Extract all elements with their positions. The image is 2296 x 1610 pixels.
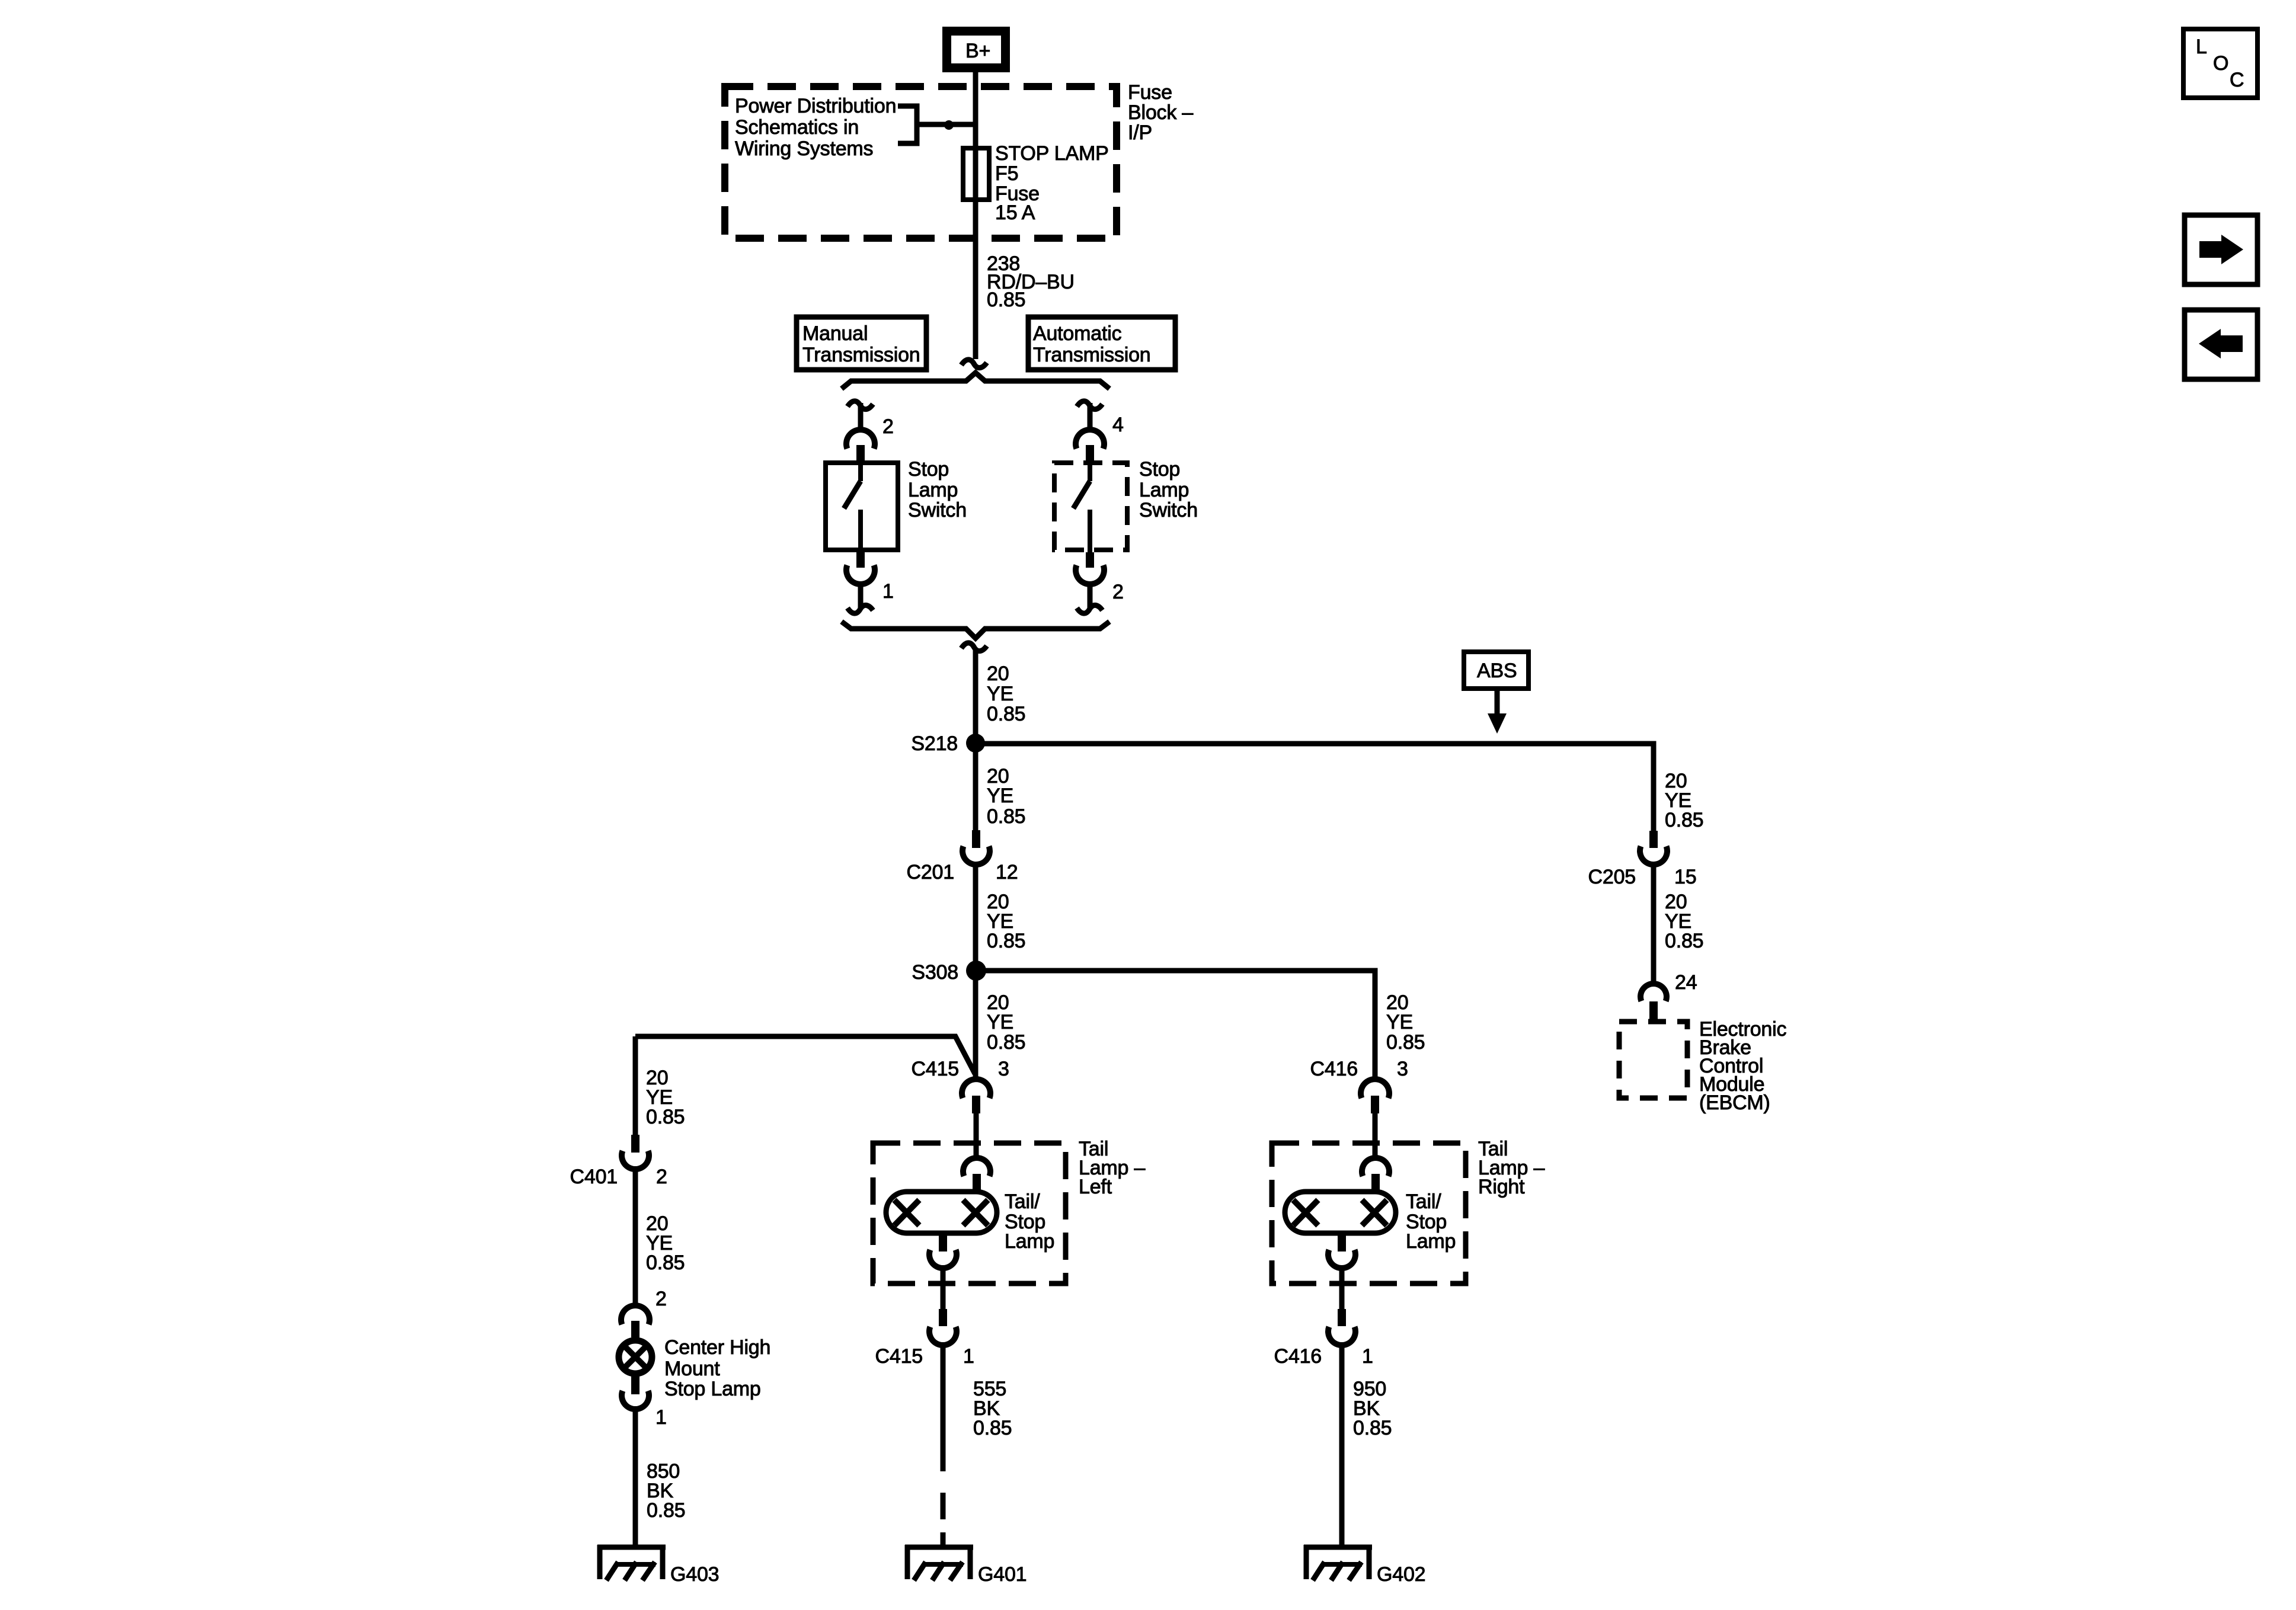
connector arc auto switch top (1076, 430, 1104, 449)
wire chmsl branch down (633, 1036, 638, 1135)
label Center High Mount Stop Lamp (664, 1336, 770, 1400)
label wire 850 BK 0.85 (647, 1460, 685, 1522)
svg-text:15 A: 15 A (995, 201, 1035, 224)
label wire 950 BK 0.85 (1353, 1378, 1392, 1439)
label wire 20 YE 0.85 to EBCM (1665, 891, 1703, 952)
connector arc C415 pin3 (962, 1079, 990, 1098)
wire S218 to EBCM branch corner (976, 744, 1654, 831)
connector cup C201 (962, 846, 990, 865)
wire tail lamp left down (941, 1267, 946, 1310)
label Fuse Block - I/P (1128, 81, 1193, 144)
pin bar auto switch bottom (1086, 552, 1094, 568)
svg-text:0.85: 0.85 (1386, 1031, 1425, 1054)
wire C415 to tail lamp left (974, 1113, 979, 1160)
svg-text:1: 1 (655, 1406, 667, 1429)
svg-text:G402: G402 (1377, 1563, 1425, 1586)
wire C205 to EBCM (1651, 864, 1657, 984)
svg-text:3: 3 (1397, 1058, 1408, 1080)
pin bar manual switch bottom (856, 552, 865, 568)
fuse F5 symbol (963, 148, 989, 200)
svg-text:ABS: ABS (1477, 660, 1517, 682)
svg-text:0.85: 0.85 (1665, 930, 1703, 952)
pin bar C416 pin3 (1371, 1096, 1379, 1113)
svg-text:2: 2 (1112, 581, 1124, 603)
svg-text:0.85: 0.85 (1665, 809, 1703, 831)
connector cup C401 (622, 1151, 649, 1169)
label Stop Lamp Switch manual (908, 458, 967, 521)
wire curl left branch top (848, 401, 873, 409)
ABS box (1464, 652, 1528, 689)
filament X right right-lamp (1362, 1200, 1387, 1225)
svg-text:0.85: 0.85 (987, 1031, 1025, 1054)
svg-text:0.85: 0.85 (646, 1106, 685, 1128)
svg-text:C415: C415 (912, 1058, 959, 1080)
label wire 20 YE 0.85 below S218 (987, 765, 1025, 828)
svg-text:Lamp: Lamp (1406, 1230, 1456, 1253)
bulb tail/stop lamp right (1285, 1192, 1396, 1233)
switch blade manual (844, 460, 861, 552)
pin bar auto switch top (1086, 445, 1094, 460)
svg-text:Manual: Manual (802, 322, 868, 345)
pin bar manual switch top (856, 445, 865, 460)
wire curl right branch top (1077, 401, 1102, 409)
svg-text:15: 15 (1674, 866, 1696, 888)
svg-text:C401: C401 (570, 1166, 618, 1188)
switch blade auto (1073, 460, 1090, 552)
svg-text:O: O (2213, 52, 2228, 75)
label Stop Lamp Switch auto (1139, 458, 1198, 521)
connector cup auto switch bottom (1076, 565, 1104, 584)
svg-text:3: 3 (998, 1058, 1009, 1080)
svg-text:Left: Left (1079, 1176, 1112, 1198)
svg-text:YE: YE (987, 683, 1013, 705)
connector arc chmsl top (621, 1305, 650, 1324)
wire C416 to tail lamp right (1373, 1113, 1378, 1160)
svg-text:2: 2 (656, 1166, 667, 1188)
wire C416 to ground (1339, 1345, 1345, 1547)
svg-text:YE: YE (1386, 1011, 1413, 1033)
svg-text:1: 1 (1362, 1345, 1373, 1368)
wire curl left branch bottom (848, 605, 873, 613)
wire curl right branch bottom (1077, 605, 1102, 613)
pin bar C401 (631, 1135, 639, 1153)
pin bar tail lamp right internal (1371, 1174, 1380, 1190)
svg-text:0.85: 0.85 (646, 1251, 685, 1274)
svg-text:Stop: Stop (1139, 458, 1180, 481)
tail lamp right dashed box (1272, 1143, 1466, 1283)
filament X left (894, 1200, 919, 1225)
svg-text:0.85: 0.85 (987, 289, 1025, 311)
svg-text:0.85: 0.85 (647, 1499, 685, 1522)
arrow box left (2185, 310, 2257, 379)
svg-text:C: C (2230, 69, 2244, 91)
svg-text:2: 2 (655, 1288, 667, 1310)
B+ power symbol (942, 27, 1010, 72)
label Tail/ Stop Lamp left (1005, 1190, 1054, 1253)
svg-text:Transmission: Transmission (802, 344, 920, 366)
svg-text:1: 1 (963, 1345, 974, 1368)
Automatic Transmission box (1028, 317, 1175, 370)
wire auto switch bottom (1088, 584, 1093, 608)
connector arc C416 pin3 (1361, 1079, 1389, 1098)
svg-text:Lamp: Lamp (908, 479, 958, 501)
ground G401 (905, 1545, 973, 1580)
label STOP LAMP F5 Fuse 15 A (995, 142, 1109, 224)
bracket from power distribution note (898, 106, 917, 143)
label wire 20 YE 0.85 chmsl branch (646, 1067, 685, 1128)
svg-text:Lamp: Lamp (1005, 1230, 1054, 1253)
svg-text:Transmission: Transmission (1033, 344, 1151, 366)
pin bar tail lamp left internal (973, 1174, 981, 1190)
svg-text:Switch: Switch (908, 499, 967, 521)
pin bar tail lamp right bottom (1338, 1233, 1346, 1251)
svg-text:1: 1 (882, 580, 894, 603)
EBCM dashed box (1619, 1022, 1687, 1098)
connector cup tail lamp right bottom (1328, 1250, 1355, 1268)
svg-text:0.85: 0.85 (987, 703, 1025, 725)
svg-text:G401: G401 (978, 1563, 1027, 1586)
svg-text:20: 20 (987, 662, 1009, 685)
bulb center high mount stop lamp (619, 1340, 652, 1374)
svg-text:Center High: Center High (664, 1336, 770, 1359)
wire stub above G401 (941, 1532, 946, 1547)
svg-text:YE: YE (987, 785, 1013, 807)
svg-text:2: 2 (882, 415, 894, 438)
svg-text:S218: S218 (911, 732, 958, 755)
label Electronic Brake Control Module (EBCM) (1699, 1018, 1786, 1114)
svg-text:Stop: Stop (908, 458, 949, 481)
connector cup chmsl bottom (622, 1391, 649, 1409)
svg-text:Power Distribution: Power Distribution (735, 95, 896, 117)
svg-text:C416: C416 (1274, 1345, 1322, 1368)
node junction dot (944, 120, 954, 130)
wire S218 to C201 (973, 744, 978, 831)
brace lower options (842, 622, 1109, 638)
wire C401 down (633, 1169, 638, 1307)
wire right branch to connector (1088, 403, 1093, 431)
wire break squiggle below brace (961, 643, 987, 651)
svg-text:Right: Right (1478, 1176, 1525, 1198)
pin bar chmsl bottom (631, 1377, 639, 1394)
svg-text:L: L (2196, 36, 2207, 58)
connector cup C415 pin1 (929, 1327, 957, 1345)
fuse block dashed box (725, 87, 1117, 238)
connector cup tail lamp left bottom (929, 1250, 957, 1268)
svg-text:Switch: Switch (1139, 499, 1198, 521)
pin bar C416 pin1 (1338, 1309, 1346, 1326)
wire left branch to connector (858, 403, 864, 431)
wire break squiggle above brace (961, 360, 987, 368)
wire B+ down through fuse block (973, 72, 978, 359)
svg-text:I/P: I/P (1128, 121, 1152, 144)
label Power Distribution Schematics in Wiring Systems (735, 95, 896, 160)
svg-text:S308: S308 (912, 961, 958, 984)
filament X right (963, 1200, 988, 1225)
svg-text:Fuse: Fuse (1128, 81, 1172, 104)
connector arc tail lamp left internal (963, 1158, 990, 1176)
label wire 20 YE 0.85 above S308 (987, 891, 1025, 952)
label wire 20 YE 0.85 below S308 (987, 991, 1025, 1054)
wire S308 to right tail lamp (976, 971, 1375, 1080)
svg-text:Stop Lamp: Stop Lamp (664, 1378, 761, 1400)
connector arc EBCM (1641, 984, 1667, 1001)
wire bracket to junction (917, 122, 978, 127)
arrow box right (2185, 215, 2257, 284)
pin bar tail lamp left bottom (939, 1233, 947, 1251)
svg-text:Schematics in: Schematics in (735, 116, 859, 139)
pin bar C205 (1649, 831, 1658, 848)
wire C415 to ground solid (941, 1345, 946, 1471)
svg-text:12: 12 (996, 861, 1018, 884)
svg-text:Automatic: Automatic (1033, 322, 1122, 345)
brace upper options (842, 373, 1109, 389)
node S218 (966, 734, 985, 753)
svg-text:B+: B+ (965, 40, 990, 62)
pin bar C201 (972, 830, 980, 848)
connector arc manual switch top (846, 430, 875, 449)
label Tail Lamp - Left (1079, 1138, 1145, 1198)
connector cup C205 (1640, 846, 1667, 865)
pin bar C415 pin1 (939, 1309, 947, 1326)
pin bar C415 pin3 (972, 1096, 980, 1113)
svg-text:Tail/: Tail/ (1005, 1190, 1040, 1213)
stop lamp switch manual box (826, 463, 898, 550)
pin bar EBCM (1649, 1001, 1658, 1019)
wire S308 down to C415 (973, 971, 978, 1080)
wire brace to S218 (973, 649, 978, 745)
svg-text:Wiring Systems: Wiring Systems (735, 137, 873, 160)
svg-text:Mount: Mount (664, 1358, 720, 1380)
wire chmsl to ground (633, 1409, 638, 1547)
filament X left right-lamp (1293, 1200, 1318, 1225)
wire tail lamp right down (1339, 1267, 1345, 1310)
svg-text:24: 24 (1675, 971, 1697, 994)
svg-text:0.85: 0.85 (987, 805, 1025, 828)
svg-text:0.85: 0.85 (973, 1417, 1012, 1439)
connector arc tail lamp right internal (1362, 1158, 1389, 1176)
wire branch to center high mount stop lamp (635, 1036, 975, 1074)
ground G403 (597, 1545, 666, 1580)
stop lamp switch auto dashed box (1054, 463, 1127, 550)
svg-text:STOP LAMP: STOP LAMP (995, 142, 1109, 165)
svg-text:C415: C415 (875, 1345, 923, 1368)
ABS arrow (1488, 689, 1507, 734)
connector cup C416 pin1 (1328, 1327, 1355, 1345)
LOC reference box (2183, 29, 2257, 98)
label wire 555 BK 0.85 (973, 1378, 1012, 1439)
svg-text:F5: F5 (995, 162, 1018, 185)
label wire 20 YE 0.85 above S218 (987, 662, 1025, 725)
wire manual switch bottom (858, 584, 864, 608)
svg-text:(EBCM): (EBCM) (1699, 1092, 1770, 1114)
svg-text:Tail/: Tail/ (1406, 1190, 1441, 1213)
svg-text:C201: C201 (907, 861, 954, 884)
svg-text:C416: C416 (1310, 1058, 1358, 1080)
label wire 238 RD/D-BU 0.85 (987, 252, 1075, 311)
svg-text:YE: YE (987, 1011, 1013, 1033)
connector cup manual switch bottom (846, 565, 875, 584)
bulb tail/stop lamp left (886, 1192, 997, 1233)
svg-text:Block –: Block – (1128, 101, 1193, 124)
svg-text:4: 4 (1112, 414, 1124, 436)
ground G402 (1304, 1545, 1372, 1580)
label Tail Lamp - Right (1478, 1138, 1544, 1198)
Manual Transmission box (797, 317, 926, 370)
svg-text:C205: C205 (1588, 866, 1636, 888)
svg-text:0.85: 0.85 (987, 930, 1025, 952)
svg-text:G403: G403 (670, 1563, 719, 1586)
svg-text:0.85: 0.85 (1353, 1417, 1392, 1439)
node S308 (966, 961, 986, 981)
svg-text:Lamp: Lamp (1139, 479, 1189, 501)
wire C201 to S308 (973, 864, 978, 971)
pin bar chmsl top (631, 1321, 639, 1337)
label Tail/ Stop Lamp right (1406, 1190, 1456, 1253)
wire dashed to G401 (941, 1493, 946, 1519)
tail lamp left dashed box (873, 1143, 1066, 1283)
label wire 20 YE 0.85 right tail branch (1386, 991, 1425, 1054)
label wire 20 YE 0.85 right branch (1665, 770, 1703, 831)
label wire 20 YE 0.85 chmsl (646, 1212, 685, 1274)
